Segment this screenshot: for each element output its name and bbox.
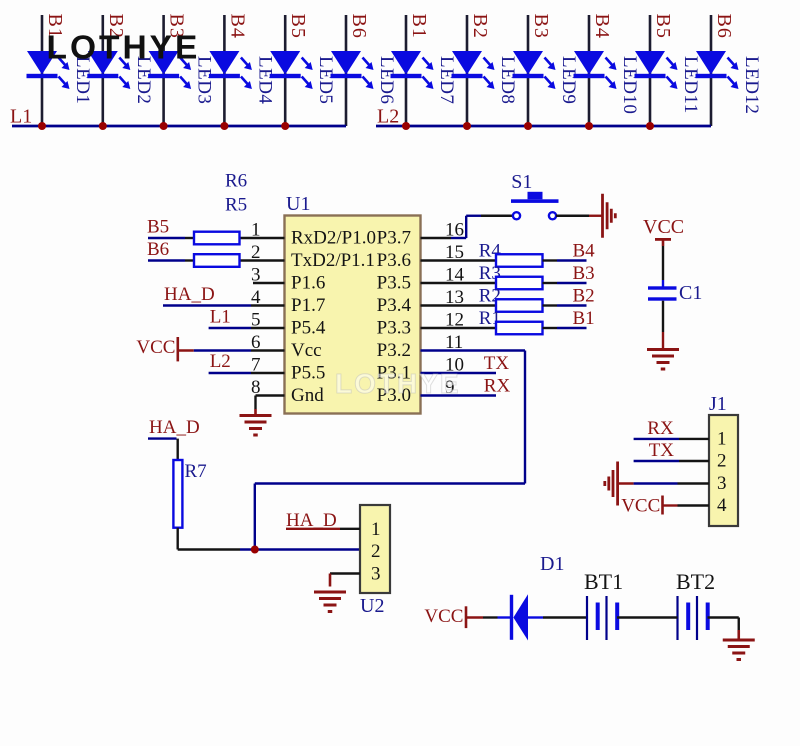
svg-text:LED8: LED8 [497,56,518,104]
svg-text:P3.5: P3.5 [377,273,411,294]
svg-text:L1: L1 [210,307,231,328]
svg-text:U1: U1 [286,193,310,215]
svg-text:P1.7: P1.7 [291,295,325,316]
svg-text:P3.2: P3.2 [377,340,411,361]
svg-text:LED9: LED9 [558,56,579,104]
svg-text:B3: B3 [573,263,595,284]
svg-text:LED12: LED12 [741,56,762,114]
svg-text:TX: TX [649,440,675,461]
svg-text:RX: RX [647,418,674,439]
svg-text:B5: B5 [652,14,674,39]
svg-text:B2: B2 [573,286,595,307]
svg-text:1: 1 [371,519,381,540]
svg-text:U2: U2 [360,595,384,617]
svg-text:P3.3: P3.3 [377,318,411,339]
svg-text:LED5: LED5 [315,56,336,104]
svg-text:S1: S1 [511,171,532,193]
svg-text:LED4: LED4 [254,56,275,104]
svg-text:P5.5: P5.5 [291,363,325,384]
svg-text:VCC: VCC [643,216,684,238]
svg-text:B6: B6 [713,14,735,39]
svg-text:P1.6: P1.6 [291,273,325,294]
svg-text:R7: R7 [185,461,207,482]
svg-text:3: 3 [371,564,381,585]
svg-text:BT2: BT2 [676,569,715,594]
svg-text:B2: B2 [469,14,491,39]
svg-text:1: 1 [717,428,727,449]
svg-text:B1: B1 [408,14,430,39]
svg-text:3: 3 [717,473,727,494]
svg-text:B4: B4 [591,14,613,39]
svg-text:2: 2 [371,541,381,562]
svg-text:VCC: VCC [621,496,660,517]
svg-text:B6: B6 [147,239,169,260]
svg-text:B5: B5 [147,217,169,238]
svg-text:P5.4: P5.4 [291,318,326,339]
svg-text:LED11: LED11 [680,56,701,114]
svg-text:J1: J1 [709,393,727,415]
svg-text:Vcc: Vcc [291,340,322,361]
svg-text:LED10: LED10 [619,56,640,114]
svg-text:VCC: VCC [136,337,175,358]
svg-text:R6: R6 [225,171,247,192]
svg-text:B3: B3 [530,14,552,39]
svg-text:2: 2 [717,451,727,472]
svg-text:B4: B4 [226,14,248,39]
svg-text:B4: B4 [573,241,596,262]
svg-text:LOTHYE: LOTHYE [335,368,461,399]
svg-text:TxD2/P1.1: TxD2/P1.1 [291,250,375,271]
svg-text:B5: B5 [287,14,309,39]
svg-text:RxD2/P1.0: RxD2/P1.0 [291,228,376,249]
svg-text:4: 4 [717,495,727,516]
svg-text:P3.7: P3.7 [377,228,411,249]
svg-text:L1: L1 [10,106,32,128]
svg-text:B1: B1 [573,308,595,329]
svg-text:Gnd: Gnd [291,385,324,406]
svg-text:L2: L2 [377,106,399,128]
svg-text:LOTHYE: LOTHYE [47,30,201,67]
svg-text:LED6: LED6 [376,56,397,104]
svg-text:LED7: LED7 [436,56,457,104]
svg-text:HA_D: HA_D [164,284,215,305]
svg-text:P3.6: P3.6 [377,250,411,271]
svg-text:R5: R5 [225,195,247,216]
svg-text:HA_D: HA_D [149,417,200,438]
svg-text:L2: L2 [210,351,231,372]
svg-text:B6: B6 [348,14,370,39]
svg-text:D1: D1 [540,553,564,575]
svg-text:BT1: BT1 [584,569,623,594]
svg-text:RX: RX [484,376,511,397]
svg-text:VCC: VCC [424,606,463,627]
svg-text:TX: TX [484,353,510,374]
svg-text:P3.4: P3.4 [377,295,412,316]
svg-text:C1: C1 [679,282,702,304]
